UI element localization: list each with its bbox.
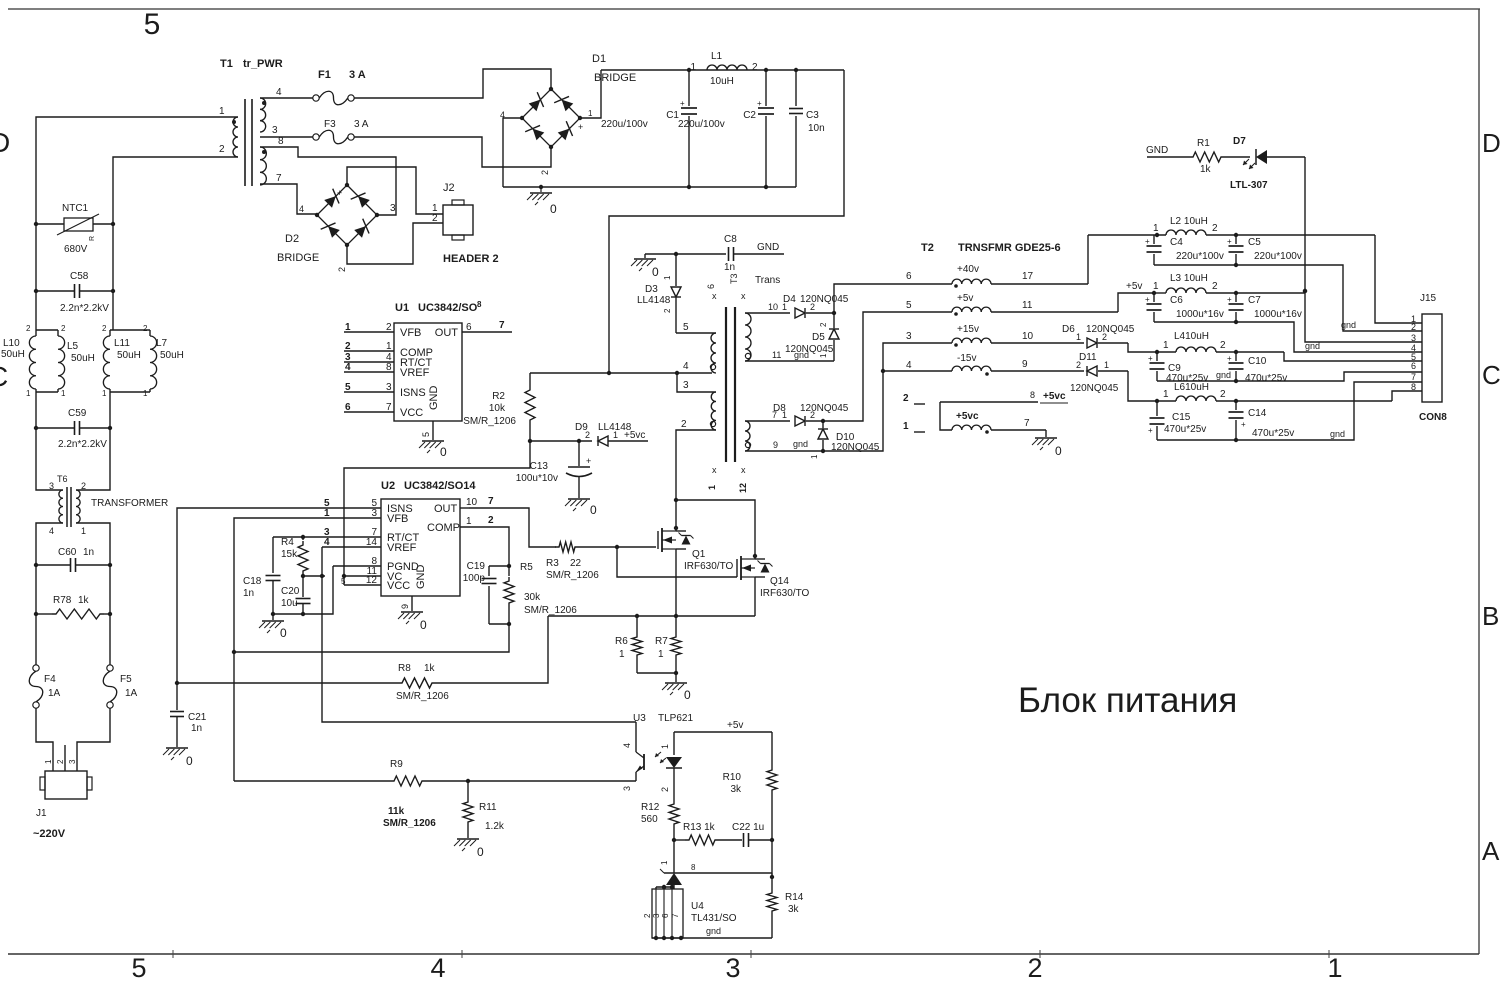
wire xyxy=(771,840,773,877)
bridge D2 xyxy=(317,185,377,245)
svg-text:HEADER 2: HEADER 2 xyxy=(443,253,499,265)
svg-text:C5: C5 xyxy=(1248,237,1261,248)
ground xyxy=(540,187,542,192)
svg-text:4: 4 xyxy=(299,204,304,214)
svg-text:+5vc: +5vc xyxy=(1043,391,1066,402)
svg-text:+: + xyxy=(1227,354,1232,363)
wire xyxy=(35,614,37,665)
svg-text:2: 2 xyxy=(810,302,815,312)
svg-text:1000u*16v: 1000u*16v xyxy=(1176,309,1224,320)
svg-text:5: 5 xyxy=(421,432,431,437)
svg-text:T6: T6 xyxy=(57,474,68,484)
svg-text:SM/R_1206: SM/R_1206 xyxy=(524,605,577,616)
svg-text:7: 7 xyxy=(276,173,282,184)
svg-text:3: 3 xyxy=(68,759,77,764)
svg-text:R12: R12 xyxy=(641,802,660,813)
svg-text:5: 5 xyxy=(144,8,161,41)
wire xyxy=(677,373,716,392)
svg-text:470u*25v: 470u*25v xyxy=(1164,424,1206,435)
svg-text:1: 1 xyxy=(1327,953,1342,983)
wire xyxy=(684,872,772,874)
svg-text:1: 1 xyxy=(903,421,909,432)
svg-text:D7: D7 xyxy=(1233,136,1246,147)
svg-text:1: 1 xyxy=(102,389,107,398)
wire xyxy=(36,117,238,224)
wire xyxy=(344,441,530,585)
svg-text:2: 2 xyxy=(819,322,828,327)
svg-text:C20: C20 xyxy=(281,586,300,597)
svg-text:2: 2 xyxy=(386,322,392,333)
svg-text:LTL-307: LTL-307 xyxy=(1230,180,1268,191)
wire xyxy=(548,615,755,617)
svg-text:C21: C21 xyxy=(188,712,207,723)
wire xyxy=(76,428,110,490)
svg-text:gnd: gnd xyxy=(1216,370,1231,380)
wire xyxy=(1392,391,1422,401)
svg-text:1: 1 xyxy=(219,106,225,117)
svg-text:120NQ045: 120NQ045 xyxy=(785,344,834,355)
svg-text:1: 1 xyxy=(613,430,618,440)
wire xyxy=(64,745,66,771)
svg-text:50uH: 50uH xyxy=(117,350,141,361)
wire xyxy=(36,708,53,771)
svg-text:R13 1k: R13 1k xyxy=(683,822,716,833)
svg-text:4: 4 xyxy=(683,361,689,372)
svg-text:U1: U1 xyxy=(395,302,409,314)
svg-text:1: 1 xyxy=(619,649,625,660)
svg-text:4: 4 xyxy=(430,953,445,983)
wire xyxy=(745,360,834,362)
svg-text:C2: C2 xyxy=(743,110,756,121)
svg-text:R11: R11 xyxy=(479,802,497,813)
svg-text:+5vc: +5vc xyxy=(956,411,979,422)
svg-text:SM/R_1206: SM/R_1206 xyxy=(546,570,599,581)
wire xyxy=(1128,343,1154,352)
svg-text:10n: 10n xyxy=(808,123,825,134)
svg-text:F4: F4 xyxy=(44,674,56,685)
wire xyxy=(273,566,333,614)
svg-text:C59: C59 xyxy=(68,408,87,419)
svg-text:12: 12 xyxy=(738,483,748,493)
svg-text:2: 2 xyxy=(345,341,351,352)
svg-text:0: 0 xyxy=(186,754,193,768)
svg-text:+5v: +5v xyxy=(1126,281,1142,292)
wire xyxy=(676,500,755,559)
svg-text:C7: C7 xyxy=(1248,295,1261,306)
svg-text:SM/R_1206: SM/R_1206 xyxy=(383,818,436,829)
svg-text:6: 6 xyxy=(661,913,670,918)
svg-text:R9: R9 xyxy=(390,759,403,770)
svg-text:1: 1 xyxy=(61,389,66,398)
svg-text:3: 3 xyxy=(386,382,392,393)
svg-text:6: 6 xyxy=(706,284,716,289)
svg-text:6: 6 xyxy=(1411,361,1416,371)
svg-text:L610uH: L610uH xyxy=(1174,382,1209,393)
svg-text:ISNS: ISNS xyxy=(400,387,426,399)
svg-text:0: 0 xyxy=(440,445,447,459)
svg-text:5: 5 xyxy=(341,577,346,586)
svg-text:1k: 1k xyxy=(1200,164,1212,175)
svg-text:C8: C8 xyxy=(724,234,737,245)
svg-text:D2: D2 xyxy=(285,233,299,245)
svg-text:120NQ045: 120NQ045 xyxy=(800,294,849,305)
svg-text:3: 3 xyxy=(272,125,278,136)
svg-text:C3: C3 xyxy=(806,110,819,121)
svg-text:VCC: VCC xyxy=(400,407,423,419)
svg-text:220u/100v: 220u/100v xyxy=(678,119,725,130)
svg-text:560: 560 xyxy=(641,814,658,825)
svg-text:BRIDGE: BRIDGE xyxy=(277,252,319,264)
wire xyxy=(530,372,712,374)
svg-text:2: 2 xyxy=(1220,340,1226,351)
svg-text:+40v: +40v xyxy=(957,264,979,275)
wire xyxy=(347,223,443,264)
svg-text:15k: 15k xyxy=(281,549,298,560)
svg-text:D: D xyxy=(0,127,10,158)
wire xyxy=(530,440,592,442)
svg-text:1k: 1k xyxy=(424,663,436,674)
svg-text:1: 1 xyxy=(660,860,669,865)
wire xyxy=(112,291,114,330)
svg-text:R4: R4 xyxy=(281,537,294,548)
ground xyxy=(166,747,188,749)
svg-text:D5: D5 xyxy=(812,332,825,343)
svg-text:C18: C18 xyxy=(243,576,262,587)
svg-text:22: 22 xyxy=(570,558,582,569)
svg-text:7: 7 xyxy=(488,496,494,507)
wire xyxy=(354,69,551,98)
svg-text:1: 1 xyxy=(345,322,351,333)
svg-text:1A: 1A xyxy=(125,688,138,699)
svg-text:F5: F5 xyxy=(120,674,132,685)
svg-text:1000u*16v: 1000u*16v xyxy=(1254,309,1302,320)
svg-text:C14: C14 xyxy=(1248,408,1267,419)
svg-text:220u/100v: 220u/100v xyxy=(601,119,648,130)
svg-text:30k: 30k xyxy=(524,592,541,603)
svg-text:2: 2 xyxy=(643,913,652,918)
svg-text:9: 9 xyxy=(400,604,410,609)
wire xyxy=(609,70,844,373)
svg-text:+5vc: +5vc xyxy=(624,430,645,441)
wire xyxy=(676,430,716,500)
svg-text:8: 8 xyxy=(1411,382,1416,392)
svg-text:OUT: OUT xyxy=(434,503,458,515)
svg-text:0: 0 xyxy=(420,618,427,632)
svg-text:11: 11 xyxy=(1022,300,1033,311)
capacitor C1 xyxy=(688,70,690,106)
svg-text:TRANSFORMER: TRANSFORMER xyxy=(91,498,168,509)
svg-text:GND: GND xyxy=(1146,145,1168,156)
svg-text:B: B xyxy=(1482,601,1499,631)
svg-text:L2 10uH: L2 10uH xyxy=(1170,216,1208,227)
svg-text:R14: R14 xyxy=(785,892,804,903)
svg-text:OUT: OUT xyxy=(435,327,459,339)
wire xyxy=(656,886,674,888)
svg-text:3: 3 xyxy=(1411,333,1416,343)
svg-text:680V: 680V xyxy=(64,244,88,255)
svg-text:3: 3 xyxy=(683,380,689,391)
svg-text:7: 7 xyxy=(499,320,505,331)
wire xyxy=(823,312,910,421)
svg-text:14: 14 xyxy=(366,537,378,548)
svg-text:UC3842/SO: UC3842/SO xyxy=(418,302,478,314)
svg-text:3: 3 xyxy=(725,953,740,983)
wire xyxy=(109,565,111,614)
svg-text:CON8: CON8 xyxy=(1419,412,1447,423)
svg-text:2: 2 xyxy=(143,324,148,333)
wire xyxy=(35,392,37,428)
svg-text:+: + xyxy=(1145,237,1150,246)
svg-text:1: 1 xyxy=(386,341,392,352)
svg-text:R7: R7 xyxy=(655,636,668,647)
svg-text:1: 1 xyxy=(707,485,717,490)
wire xyxy=(580,70,601,118)
svg-text:0: 0 xyxy=(652,265,659,279)
wire xyxy=(110,329,150,331)
svg-text:2: 2 xyxy=(1212,281,1218,292)
svg-text:4: 4 xyxy=(345,362,351,373)
svg-text:-15v: -15v xyxy=(957,353,976,364)
svg-text:IRF630/TO: IRF630/TO xyxy=(760,588,809,599)
svg-text:L1: L1 xyxy=(711,51,723,62)
ground xyxy=(568,498,590,500)
svg-text:3: 3 xyxy=(49,481,54,491)
svg-text:8: 8 xyxy=(386,362,392,373)
svg-text:x: x xyxy=(712,465,717,475)
svg-text:SM/R_1206: SM/R_1206 xyxy=(396,691,449,702)
connector J1 xyxy=(45,771,87,799)
svg-text:J2: J2 xyxy=(443,182,455,194)
svg-text:VFB: VFB xyxy=(387,513,408,525)
svg-text:R1: R1 xyxy=(1197,138,1210,149)
svg-text:R: R xyxy=(89,236,96,241)
wire xyxy=(676,332,716,334)
svg-text:17: 17 xyxy=(1022,271,1034,282)
svg-text:C19: C19 xyxy=(467,561,486,572)
svg-text:1: 1 xyxy=(44,759,53,764)
wire xyxy=(77,708,110,771)
svg-text:1: 1 xyxy=(1153,223,1159,234)
wire xyxy=(36,523,63,565)
svg-text:A: A xyxy=(1482,836,1500,866)
wire xyxy=(601,69,844,71)
svg-text:1: 1 xyxy=(1104,360,1109,370)
svg-text:1: 1 xyxy=(819,353,828,358)
svg-text:2: 2 xyxy=(1027,953,1042,983)
svg-text:6: 6 xyxy=(466,322,472,333)
svg-text:D3: D3 xyxy=(645,284,658,295)
svg-text:2: 2 xyxy=(26,324,31,333)
svg-text:3: 3 xyxy=(371,508,377,519)
svg-text:L11: L11 xyxy=(114,338,130,349)
svg-text:2: 2 xyxy=(81,481,86,491)
svg-text:2: 2 xyxy=(219,144,225,155)
svg-text:2: 2 xyxy=(540,170,550,175)
wire xyxy=(1305,291,1422,342)
svg-text:0: 0 xyxy=(1055,444,1062,458)
svg-text:+: + xyxy=(1148,354,1153,363)
svg-text:+5v: +5v xyxy=(727,720,743,731)
svg-text:2: 2 xyxy=(1102,332,1107,342)
wire xyxy=(1087,235,1089,284)
svg-text:4: 4 xyxy=(276,87,282,98)
svg-text:F1: F1 xyxy=(318,69,331,81)
svg-text:10: 10 xyxy=(768,302,778,312)
svg-text:R5: R5 xyxy=(520,562,533,573)
svg-text:R10: R10 xyxy=(723,772,742,783)
svg-text:+15v: +15v xyxy=(957,324,979,335)
wire xyxy=(1154,322,1422,352)
svg-text:TLP621: TLP621 xyxy=(658,713,693,724)
wire xyxy=(637,672,676,674)
svg-text:~220V: ~220V xyxy=(33,828,66,840)
svg-text:gnd: gnd xyxy=(794,350,809,360)
wire xyxy=(113,157,238,224)
ground xyxy=(272,614,274,620)
wire xyxy=(745,450,823,452)
svg-text:50uH: 50uH xyxy=(160,350,184,361)
svg-text:R78: R78 xyxy=(53,595,72,606)
svg-text:C60: C60 xyxy=(58,547,77,558)
svg-text:1: 1 xyxy=(26,389,31,398)
svg-text:R6: R6 xyxy=(615,636,628,647)
svg-text:J1: J1 xyxy=(36,808,47,819)
svg-text:T3: T3 xyxy=(729,273,739,284)
svg-text:2: 2 xyxy=(1076,360,1081,370)
svg-text:0: 0 xyxy=(477,845,484,859)
svg-text:IRF630/TO: IRF630/TO xyxy=(684,561,733,572)
svg-text:x: x xyxy=(741,291,746,301)
wire xyxy=(436,616,548,683)
wire xyxy=(469,508,556,547)
wire xyxy=(354,137,551,167)
svg-text:1n: 1n xyxy=(83,547,94,558)
svg-text:4: 4 xyxy=(49,526,54,536)
svg-text:10uH: 10uH xyxy=(710,76,734,87)
wire xyxy=(109,392,111,428)
svg-text:L7: L7 xyxy=(156,338,168,349)
wire xyxy=(1154,265,1422,331)
svg-text:J15: J15 xyxy=(1420,293,1437,304)
wire xyxy=(36,329,58,331)
svg-text:1.2k: 1.2k xyxy=(485,821,505,832)
svg-text:C13: C13 xyxy=(530,461,549,472)
svg-text:Trans: Trans xyxy=(755,275,780,286)
svg-text:1n: 1n xyxy=(191,723,202,734)
wire xyxy=(260,147,396,215)
svg-text:100u*10v: 100u*10v xyxy=(516,473,558,484)
svg-text:C10: C10 xyxy=(1248,356,1267,367)
svg-text:C: C xyxy=(1482,360,1500,390)
svg-text:2: 2 xyxy=(102,324,107,333)
svg-text:gnd: gnd xyxy=(1341,320,1356,330)
svg-text:12: 12 xyxy=(366,575,378,586)
svg-text:1: 1 xyxy=(1163,340,1169,351)
svg-text:+: + xyxy=(586,456,591,466)
svg-text:470u*25v: 470u*25v xyxy=(1252,428,1294,439)
svg-text:220u*100v: 220u*100v xyxy=(1176,251,1224,262)
wire xyxy=(35,224,37,291)
svg-text:gnd: gnd xyxy=(1330,429,1345,439)
svg-text:C15: C15 xyxy=(1172,412,1191,423)
ground xyxy=(1045,430,1047,437)
svg-text:10u: 10u xyxy=(281,598,298,609)
wire xyxy=(1128,371,1154,401)
svg-text:U3: U3 xyxy=(633,713,646,724)
svg-text:1: 1 xyxy=(782,302,787,312)
svg-text:7: 7 xyxy=(1411,372,1416,382)
svg-text:gnd: gnd xyxy=(793,439,808,449)
svg-text:2: 2 xyxy=(1212,223,1218,234)
svg-text:L10: L10 xyxy=(3,338,20,349)
ground xyxy=(411,596,413,611)
svg-text:0: 0 xyxy=(550,202,557,216)
svg-text:1: 1 xyxy=(324,508,330,519)
svg-text:6: 6 xyxy=(345,402,351,413)
svg-text:2: 2 xyxy=(1411,322,1416,332)
wire xyxy=(823,343,910,451)
svg-text:3: 3 xyxy=(906,331,912,342)
capacitor C3 xyxy=(795,70,797,106)
svg-text:SM/R_1206: SM/R_1206 xyxy=(463,416,516,427)
svg-text:GND: GND xyxy=(428,386,440,411)
svg-text:2: 2 xyxy=(752,62,758,73)
svg-text:10: 10 xyxy=(466,497,478,508)
svg-text:COMP: COMP xyxy=(427,522,460,534)
svg-text:4: 4 xyxy=(324,537,330,548)
svg-text:+: + xyxy=(1145,295,1150,304)
svg-text:1: 1 xyxy=(588,109,593,118)
wire xyxy=(617,547,737,577)
svg-text:5: 5 xyxy=(131,953,146,983)
svg-text:2: 2 xyxy=(903,393,909,404)
svg-text:R2: R2 xyxy=(492,391,505,402)
svg-text:TRNSFMR GDE25-6: TRNSFMR GDE25-6 xyxy=(958,242,1061,254)
svg-text:1: 1 xyxy=(690,62,696,73)
svg-text:C6: C6 xyxy=(1170,295,1183,306)
wire xyxy=(76,523,110,565)
svg-text:11k: 11k xyxy=(388,806,405,817)
ground xyxy=(457,838,479,840)
svg-text:8: 8 xyxy=(691,863,696,872)
svg-text:1: 1 xyxy=(810,454,819,459)
svg-text:+: + xyxy=(337,188,342,198)
svg-text:5: 5 xyxy=(906,300,912,311)
svg-text:1: 1 xyxy=(663,275,672,280)
svg-text:2: 2 xyxy=(585,430,590,440)
svg-text:5: 5 xyxy=(683,322,689,333)
wire xyxy=(347,167,443,214)
svg-text:7: 7 xyxy=(1024,418,1030,429)
svg-text:470u*25v: 470u*25v xyxy=(1245,373,1287,384)
svg-text:L5: L5 xyxy=(67,341,79,352)
svg-text:6: 6 xyxy=(906,271,912,282)
svg-text:2: 2 xyxy=(810,410,815,420)
svg-text:1A: 1A xyxy=(48,688,61,699)
svg-text:9: 9 xyxy=(1022,359,1028,370)
svg-text:x: x xyxy=(741,465,746,475)
ground xyxy=(432,421,434,440)
svg-text:L410uH: L410uH xyxy=(1174,331,1209,342)
wire xyxy=(1157,372,1422,381)
svg-text:8: 8 xyxy=(1030,390,1035,400)
wire xyxy=(112,224,114,291)
svg-text:9: 9 xyxy=(773,440,778,450)
svg-text:0: 0 xyxy=(684,688,691,702)
svg-text:VREF: VREF xyxy=(387,542,417,554)
svg-text:3 A: 3 A xyxy=(349,69,366,81)
wire xyxy=(109,614,111,665)
